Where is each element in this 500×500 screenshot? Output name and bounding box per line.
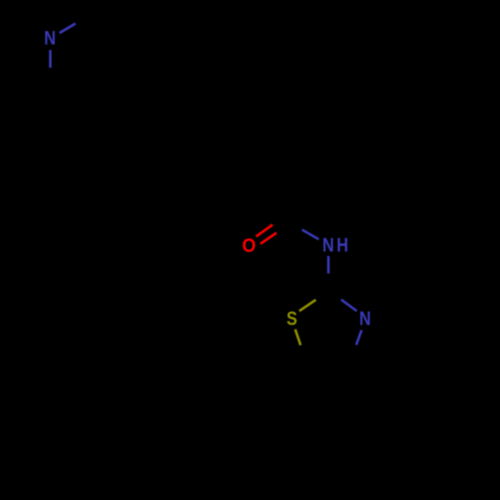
svg-text:S: S: [287, 308, 298, 330]
svg-text:N: N: [322, 234, 334, 256]
svg-text:N: N: [44, 27, 56, 49]
svg-text:O: O: [242, 234, 256, 256]
svg-text:H: H: [337, 234, 349, 256]
svg-text:N: N: [359, 308, 371, 330]
